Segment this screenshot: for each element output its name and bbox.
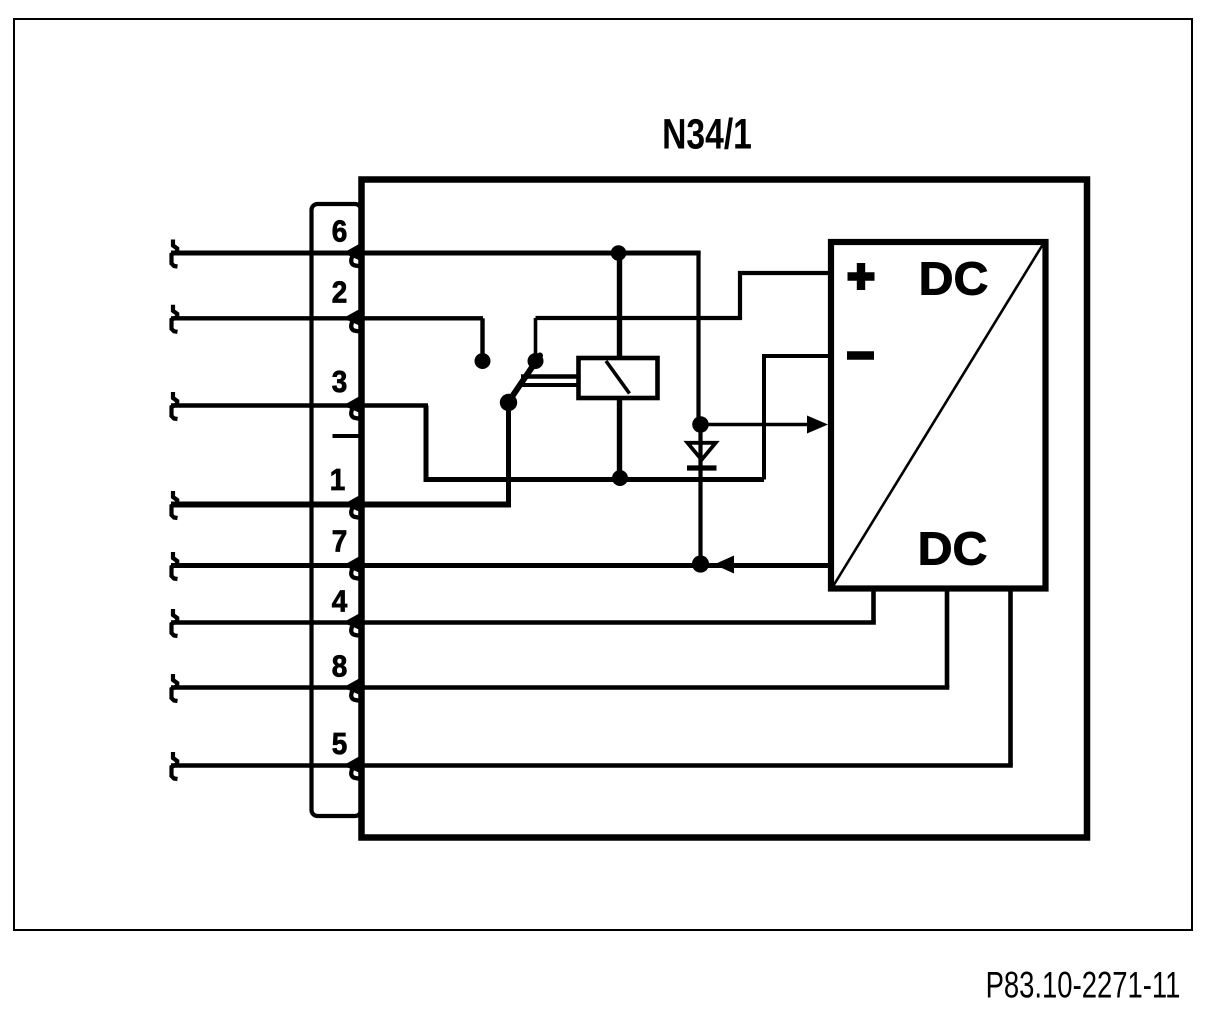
svg-text:6: 6 <box>332 214 348 249</box>
pin 7 wire-end mark <box>172 552 178 579</box>
relay coil K1 box <box>579 358 658 398</box>
pin 5 wire-end mark <box>172 752 178 779</box>
pin 4 wire-end mark <box>172 609 178 636</box>
arrow on pin 7 wire <box>714 556 734 574</box>
pin 7 wire <box>171 563 831 568</box>
wire minus net riser <box>764 356 831 480</box>
pin 1 wire-end mark <box>172 491 178 518</box>
pin 6 wire-end mark <box>172 240 178 267</box>
svg-text:7: 7 <box>332 524 348 559</box>
wire pin2 drop to contact A <box>480 318 484 359</box>
wire pivot to pin 1 <box>506 403 511 505</box>
pin 8 wire-end mark <box>172 674 178 701</box>
pin 2 contact <box>343 309 360 332</box>
node contact A <box>475 353 491 369</box>
wire contact B net to DC plus <box>536 273 832 318</box>
wire coil bottom <box>617 398 622 480</box>
wire pin3 step down <box>426 406 764 480</box>
svg-text:DC: DC <box>918 523 988 575</box>
node junction coil/minus net <box>612 470 628 486</box>
node junction on pin 6 wire <box>611 245 627 261</box>
plus terminal symbol <box>848 263 875 290</box>
wire contact B riser <box>534 318 538 359</box>
wire anode to DC converter with arrow <box>701 423 813 427</box>
pin 7 contact <box>343 556 360 579</box>
svg-text:2: 2 <box>332 275 348 310</box>
wire coil top to pin6 net <box>617 253 622 358</box>
svg-text:DC: DC <box>919 253 989 305</box>
wire DC out 1 to pin 4 <box>871 589 876 623</box>
pin 6 contact <box>343 244 360 267</box>
pin 4 wire <box>171 620 876 625</box>
node contact B <box>528 353 544 369</box>
relay switch lever S1 <box>507 356 540 405</box>
svg-text:4: 4 <box>332 584 348 619</box>
node switch pivot <box>500 394 517 411</box>
DC/DC converter diagonal <box>834 245 1043 586</box>
wire diode cathode down to pin 7 net <box>698 429 702 566</box>
node junction diode/pin7 <box>692 555 709 572</box>
connector key tick <box>333 434 362 438</box>
pin 8 contact <box>343 678 360 701</box>
pin 5 contact <box>343 756 360 779</box>
node diode anode junction <box>692 416 709 433</box>
wire pin6 net drop to diode <box>696 251 700 425</box>
pin 3 wire-end mark <box>172 392 178 419</box>
pin 3 wire <box>171 403 428 408</box>
pin 3 contact <box>343 396 360 419</box>
pin 4 contact <box>343 613 360 636</box>
wire DC out 2 to pin 8 <box>945 589 950 688</box>
svg-text:1: 1 <box>330 463 346 498</box>
svg-text:3: 3 <box>332 365 348 400</box>
svg-text:5: 5 <box>332 727 348 762</box>
pin 8 wire <box>171 685 949 690</box>
pin 2 wire <box>171 316 483 320</box>
wire DC out 3 to pin 5 <box>1008 589 1013 766</box>
diode V1 <box>688 443 716 460</box>
relay mechanical link (double line) <box>521 374 579 379</box>
pin 1 wire <box>171 502 511 508</box>
svg-text:P83.10-2271-11: P83.10-2271-11 <box>986 965 1181 1006</box>
relay coil slash <box>606 361 630 394</box>
svg-text:N34/1: N34/1 <box>662 111 752 159</box>
pin 6 wire <box>171 251 701 256</box>
pin 1 contact <box>343 495 360 518</box>
svg-text:8: 8 <box>332 649 348 684</box>
connector <box>312 204 362 816</box>
control module N34/1 box <box>362 180 1088 838</box>
pin 5 wire <box>171 763 1013 768</box>
pin 2 wire-end mark <box>172 305 178 332</box>
DC/DC converter U1 box <box>831 242 1046 589</box>
minus terminal symbol <box>847 351 874 359</box>
